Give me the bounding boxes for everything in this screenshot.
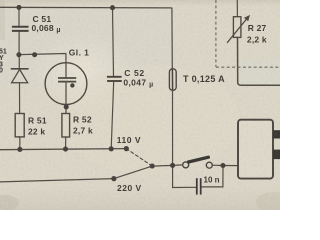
node selector common [150, 164, 155, 169]
wire fuse vertical rail [170, 8, 172, 68]
wire C51 to node A [18, 31, 20, 55]
wire selector 110V dashed branch [126, 149, 152, 167]
wire R52 to bottom bus [65, 137, 67, 149]
mains connector box [238, 120, 273, 179]
node 220V contact [111, 176, 116, 181]
switch contact right [206, 162, 212, 168]
wire fuse junction to switch [173, 164, 183, 167]
wire R27 top lead [236, 0, 238, 17]
wire fuse rail lower section down to 10n branch [172, 90, 174, 187]
wire node A to diode [18, 55, 20, 69]
wire diode to R51 [19, 83, 21, 114]
wire 10n left connection [173, 186, 196, 188]
node bus R52 [63, 147, 68, 152]
diode D51 [11, 69, 29, 83]
node lamp-R52 [64, 104, 69, 109]
node 10n junction [220, 163, 225, 168]
wire C52 rail lower [111, 81, 114, 149]
wire top bus from left edge to fuse drop [0, 6, 170, 9]
node fuse junction [170, 163, 175, 168]
fuse T0,125A [169, 68, 176, 91]
node top-left [16, 5, 21, 10]
connector pin lower [273, 150, 280, 160]
wire 10n right riser [202, 166, 224, 187]
wire lamp bottom lead to R52 [65, 82, 67, 114]
node 110V contact [124, 146, 129, 151]
capacitor 10n [197, 178, 201, 194]
node bus C52 [109, 146, 114, 151]
wire C52 rail upper [113, 8, 114, 77]
node A second dot [32, 52, 37, 57]
wire selector 220V solid branch [114, 166, 152, 179]
capacitor C51 [12, 27, 29, 31]
switch lever [188, 157, 208, 162]
wire 110V bus (bottom-left horizontal) [0, 149, 126, 150]
left-edge clipped label fragments [0, 49, 7, 75]
wire 220V line [0, 179, 114, 182]
capacitor C52 [107, 77, 122, 81]
resistor R51 [15, 114, 24, 137]
potentiometer R27 [227, 15, 250, 43]
resistor R52 [62, 114, 70, 138]
wire switch to 10n junction [212, 164, 223, 166]
paper background washes [0, 0, 280, 210]
node A junction wire to lamp [19, 54, 66, 63]
node A dot [16, 52, 21, 57]
paper grain [0, 0, 280, 210]
connector pin upper [273, 130, 280, 138]
wire R51 to bottom bus [19, 137, 21, 149]
switch contact left [183, 162, 189, 168]
wire R27 bottom lead into corner box [238, 37, 281, 85]
wire 10n junction to mains box [223, 165, 238, 167]
dashed enclosure top right [216, 0, 280, 67]
node top-C52 [110, 5, 115, 10]
glow lamp Gl.1 [45, 63, 87, 105]
wire selector common to fuse junction [152, 164, 172, 167]
wire C51 rail upper [18, 7, 20, 26]
node bus R51 [17, 147, 22, 152]
